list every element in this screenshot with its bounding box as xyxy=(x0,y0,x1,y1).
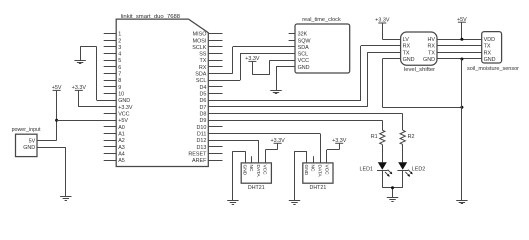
wire R2 to LED2 xyxy=(402,144,404,162)
ground GND7 xyxy=(456,201,467,204)
sensor DHT1 DHT21 xyxy=(241,156,271,191)
wire U1 D7 to U3 TX xyxy=(208,52,400,107)
svg-text:10: 10 xyxy=(118,92,124,98)
level shifter U3 xyxy=(401,32,437,73)
sensor DHT2 DHT21 xyxy=(303,156,333,191)
resistor R2 xyxy=(400,130,414,144)
ground GND4 xyxy=(227,201,238,205)
svg-text:SCL: SCL xyxy=(196,78,207,84)
power symbol +5V left xyxy=(52,85,62,91)
power symbol +5V right xyxy=(457,17,467,23)
wire +3.3V to DHT1 VCC xyxy=(265,143,277,163)
svg-text:TX: TX xyxy=(484,44,491,50)
svg-text:power_input: power_input xyxy=(12,127,41,133)
svg-text:VCC: VCC xyxy=(323,165,329,176)
wire U1 D11 to DHT2 DATA xyxy=(208,134,320,163)
ground GND1 xyxy=(74,61,85,64)
svg-text:D6: D6 xyxy=(199,98,206,104)
svg-text:D8: D8 xyxy=(199,112,206,118)
svg-text:MOSI: MOSI xyxy=(193,38,207,44)
wire U3 TX right to U4 RX xyxy=(437,52,482,54)
wire power_input 5V to +5V rail xyxy=(37,140,57,142)
svg-text:A2: A2 xyxy=(118,138,125,144)
svg-text:VCC: VCC xyxy=(262,165,268,176)
svg-text:RX: RX xyxy=(428,44,436,50)
wire +5V to U3 HV and U4 VDD xyxy=(437,22,482,39)
svg-text:6: 6 xyxy=(118,65,121,71)
svg-text:GND: GND xyxy=(303,165,309,176)
svg-text:SDA: SDA xyxy=(298,45,309,51)
svg-text:SQW: SQW xyxy=(298,38,312,44)
ground GND5 xyxy=(289,201,300,205)
svg-text:GND: GND xyxy=(118,98,130,104)
wire U1 SDA to RTC SDA xyxy=(208,47,295,74)
svg-text:D11: D11 xyxy=(197,132,207,138)
wire RTC GND to ground xyxy=(276,67,295,91)
wire LED cathodes to ground xyxy=(382,170,402,197)
wire +3.3V to U3 LV xyxy=(382,23,400,40)
svg-text:DATA: DATA xyxy=(255,165,261,178)
svg-text:SCL: SCL xyxy=(298,52,309,58)
svg-text:GND: GND xyxy=(298,65,310,71)
svg-text:R2: R2 xyxy=(408,134,415,140)
svg-text:VDD: VDD xyxy=(484,37,495,43)
svg-text:GND: GND xyxy=(23,145,35,151)
wire U1 D12 to DHT1 DATA xyxy=(208,140,258,163)
main IC U1 linkit_smart_duo_7688 xyxy=(116,14,208,167)
svg-text:D5: D5 xyxy=(199,92,206,98)
wire DHT1 GND to ground xyxy=(233,151,246,201)
svg-text:AREF: AREF xyxy=(192,158,207,164)
power symbol +3.3V DHT1 xyxy=(270,138,285,144)
wire U1 D9 to R1 xyxy=(208,120,382,130)
svg-text:DHT21: DHT21 xyxy=(310,185,327,191)
svg-text:+5V: +5V xyxy=(118,118,128,124)
ground GND3 xyxy=(270,91,281,94)
junction LED ground xyxy=(391,186,394,189)
svg-text:DHT21: DHT21 xyxy=(248,185,265,191)
svg-text:1: 1 xyxy=(118,32,121,38)
svg-text:LED1: LED1 xyxy=(360,166,374,172)
wire R1 to LED1 xyxy=(382,144,384,162)
svg-text:soil_moisture_sensor: soil_moisture_sensor xyxy=(467,66,519,72)
svg-text:SS: SS xyxy=(199,52,207,58)
svg-text:D12: D12 xyxy=(197,138,207,144)
svg-text:MISO: MISO xyxy=(193,32,207,38)
svg-text:D9: D9 xyxy=(199,118,206,124)
svg-text:4: 4 xyxy=(118,52,121,58)
svg-text:VCC: VCC xyxy=(118,112,129,118)
svg-text:2: 2 xyxy=(118,38,121,44)
svg-text:TX: TX xyxy=(428,50,435,56)
wire DHT2 GND to ground xyxy=(295,151,307,201)
svg-text:D4: D4 xyxy=(199,85,206,91)
svg-text:7: 7 xyxy=(118,72,121,78)
svg-text:5V: 5V xyxy=(29,138,36,144)
wire U1 D8 to R2 xyxy=(208,114,402,131)
wire +5V rail xyxy=(56,90,58,140)
svg-text:TX: TX xyxy=(200,58,207,64)
U1 right pin stubs and labels xyxy=(188,32,222,165)
svg-text:RX: RX xyxy=(403,44,411,50)
power symbol +3.3V DHT2 xyxy=(332,138,347,144)
resistor R1 xyxy=(371,130,385,144)
svg-text:D10: D10 xyxy=(197,125,207,131)
svg-text:RX: RX xyxy=(484,50,492,56)
wire power_input GND to ground xyxy=(37,147,66,197)
wire U1 D6 to U3 RX xyxy=(208,46,400,101)
svg-text:GND: GND xyxy=(403,57,415,63)
svg-text:VCC: VCC xyxy=(298,58,309,64)
svg-text:linkit_smart_duo_7688: linkit_smart_duo_7688 xyxy=(121,14,181,20)
power symbol +3.3V left xyxy=(72,85,87,91)
junction GND right xyxy=(460,58,463,61)
svg-text:TX: TX xyxy=(403,50,410,56)
wire U3 RX right to U4 TX xyxy=(437,45,482,47)
svg-text:A0: A0 xyxy=(118,125,125,131)
power symbol +3.3V RTC xyxy=(245,56,260,62)
ground GND2 xyxy=(60,197,71,201)
svg-text:SCLK: SCLK xyxy=(192,45,206,51)
svg-text:32K: 32K xyxy=(298,32,308,38)
svg-text:NC: NC xyxy=(248,165,254,172)
svg-text:D13: D13 xyxy=(197,145,207,151)
junction +5V xyxy=(55,119,58,122)
wire U3 GND to U4 GND xyxy=(437,58,482,60)
U1 left pin stubs and labels xyxy=(104,32,133,165)
svg-text:NC: NC xyxy=(310,165,316,172)
svg-text:HV: HV xyxy=(428,37,436,43)
soil moisture sensor U4 xyxy=(467,32,519,72)
junction +5V right xyxy=(460,38,463,41)
svg-text:A3: A3 xyxy=(118,145,125,151)
svg-text:DATA: DATA xyxy=(317,165,323,178)
svg-text:+3.3V: +3.3V xyxy=(118,105,133,111)
svg-text:RX: RX xyxy=(199,65,207,71)
svg-text:D7: D7 xyxy=(199,105,206,111)
svg-text:A5: A5 xyxy=(118,158,125,164)
wire +3.3V to U1 +3.3V pin xyxy=(79,90,117,107)
svg-text:A4: A4 xyxy=(118,151,125,157)
svg-text:GND: GND xyxy=(241,165,247,176)
wire U3 GND left to ground bus xyxy=(382,59,462,108)
power symbol +3.3V level shifter xyxy=(375,18,390,24)
svg-text:LV: LV xyxy=(403,37,410,43)
wire +5V to U1 +5V pin xyxy=(57,120,117,122)
wire U1 SCL to RTC SCL xyxy=(208,54,295,81)
svg-text:GND: GND xyxy=(423,57,435,63)
svg-text:SDA: SDA xyxy=(195,72,206,78)
svg-text:R1: R1 xyxy=(371,134,378,140)
RTC U2 real_time_clock xyxy=(289,17,350,73)
LED LED1 xyxy=(360,162,393,177)
ground GND6 xyxy=(387,198,398,202)
wire ground bus down xyxy=(461,59,463,200)
svg-text:level_shifter: level_shifter xyxy=(404,67,435,73)
LED LED2 xyxy=(397,162,425,177)
power supply J1 power_input xyxy=(12,127,41,157)
svg-text:RESET: RESET xyxy=(188,151,207,157)
svg-text:8: 8 xyxy=(118,78,121,84)
wire +3.3V to DHT2 VCC xyxy=(327,143,340,163)
wire +3.3V to RTC VCC xyxy=(252,60,295,75)
svg-text:3: 3 xyxy=(118,45,121,51)
wire U1 GND pin to ground xyxy=(80,47,116,101)
junction ground bus xyxy=(460,106,463,109)
svg-text:A1: A1 xyxy=(118,132,125,138)
svg-text:GND: GND xyxy=(484,57,496,63)
svg-text:9: 9 xyxy=(118,85,121,91)
svg-text:5: 5 xyxy=(118,58,121,64)
svg-text:LED2: LED2 xyxy=(412,166,426,172)
svg-text:real_time_clock: real_time_clock xyxy=(302,17,341,23)
